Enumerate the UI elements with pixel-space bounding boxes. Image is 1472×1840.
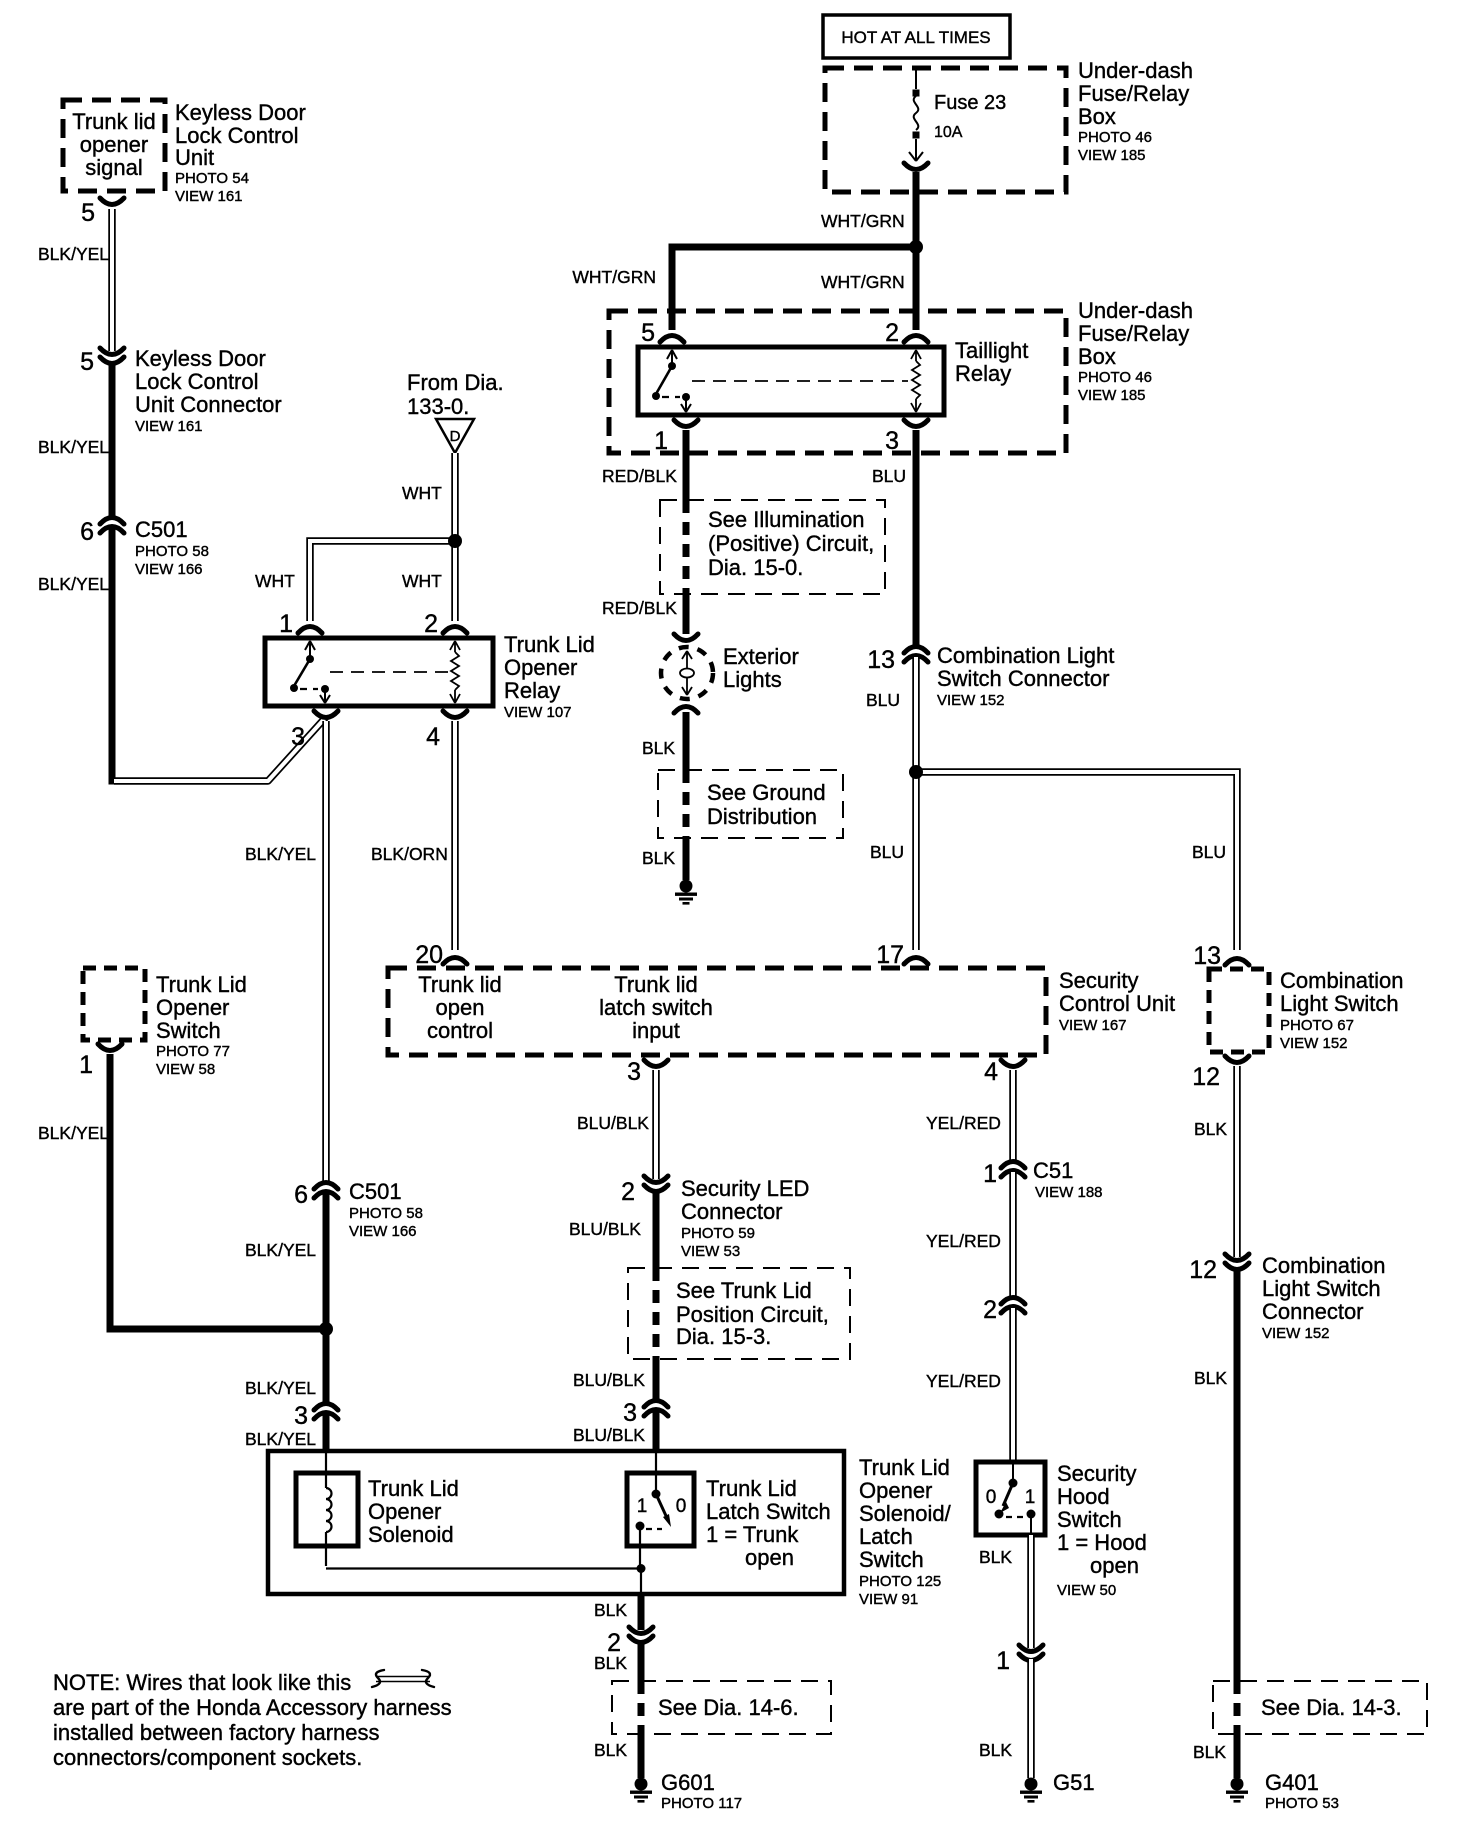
svg-text:WHT/GRN: WHT/GRN: [821, 211, 905, 231]
wire WHT thin double from triangle down to junction: [451, 453, 459, 541]
svg-text:BLU: BLU: [1192, 842, 1226, 862]
pin 3 (bottom-right) connector arch: [904, 420, 928, 427]
svg-text:4: 4: [426, 723, 440, 751]
wire BLK/YEL thick from connector 5 to C501: [109, 362, 116, 519]
svg-text:VIEW 53: VIEW 53: [681, 1243, 740, 1260]
wire YEL/RED thin double from C51 to connector 2: [1009, 1172, 1017, 1297]
connector 2 (BLK, below latch switch): [629, 1627, 653, 1643]
svg-text:VIEW 188: VIEW 188: [1035, 1184, 1103, 1201]
component: Under-dash Fuse/Relay Box (lower dashed box around taillight relay): [609, 311, 1066, 453]
pin 2 (top-right) connector arch: [443, 627, 467, 634]
svg-text:Connector: Connector: [1262, 1299, 1364, 1324]
wire BLK/YEL thin double from relay pin 3 down to C501 (lower): [322, 721, 330, 1181]
wire BLU thin double branch right to combination light switch pin 13: [916, 772, 1237, 950]
wire BLK to ground G401: [1234, 1734, 1241, 1778]
svg-text:Opener: Opener: [504, 655, 577, 680]
trunk lid opener switch pin 1 arch: [98, 1044, 122, 1051]
svg-text:Light Switch: Light Switch: [1280, 991, 1399, 1016]
svg-text:Control Unit: Control Unit: [1059, 991, 1175, 1016]
label: Under-dash Fuse/Relay Box PHOTO 46 VIEW 185 (upper): [1078, 58, 1193, 164]
svg-text:5: 5: [81, 199, 95, 227]
svg-text:Trunk Lid: Trunk Lid: [504, 632, 595, 657]
svg-text:Keyless Door: Keyless Door: [175, 100, 306, 125]
svg-text:VIEW 152: VIEW 152: [1262, 1325, 1330, 1342]
fuse F23: Fuse 23 10A: [909, 68, 1006, 161]
junction node BLU: [909, 765, 923, 779]
svg-text:See Dia. 14-6.: See Dia. 14-6.: [658, 1695, 799, 1720]
svg-text:See Dia. 14-3.: See Dia. 14-3.: [1261, 1695, 1402, 1720]
svg-text:Trunk Lid: Trunk Lid: [156, 972, 247, 997]
svg-text:Dia. 15-0.: Dia. 15-0.: [708, 555, 803, 580]
svg-text:See Trunk Lid: See Trunk Lid: [676, 1278, 812, 1303]
component: Trunk Lid Opener Solenoid / Latch Switch (outer solid box): [268, 1451, 844, 1594]
svg-text:3: 3: [294, 1402, 308, 1430]
switch: Trunk Lid Latch Switch (inner box): [627, 1452, 694, 1568]
svg-text:G401: G401: [1265, 1770, 1319, 1795]
svg-text:2: 2: [885, 319, 899, 347]
relay internal: thin dashed link line: [330, 671, 450, 673]
svg-text:Security: Security: [1057, 1461, 1136, 1486]
wire BLK dashed through See Dia. 14-3. box: [1234, 1681, 1241, 1734]
svg-text:VIEW 161: VIEW 161: [175, 188, 243, 205]
wire YEL/RED thin double from connector 2 to hood switch: [1009, 1308, 1017, 1462]
svg-text:D: D: [450, 428, 461, 445]
wire BLK/YEL thick from opener switch down and right to junction: [107, 1054, 328, 1329]
svg-text:BLK: BLK: [594, 1740, 627, 1760]
svg-text:Solenoid/: Solenoid/: [859, 1501, 952, 1526]
svg-text:Fuse/Relay: Fuse/Relay: [1078, 81, 1189, 106]
svg-text:Trunk Lid: Trunk Lid: [706, 1476, 797, 1501]
pin 2 (top-right) connector arch: [904, 336, 928, 343]
svg-text:Latch: Latch: [859, 1524, 913, 1549]
svg-text:Connector: Connector: [681, 1199, 783, 1224]
wire BLK thick below exterior lights: [683, 712, 690, 770]
svg-text:BLK/YEL: BLK/YEL: [245, 1240, 316, 1260]
svg-text:VIEW 161: VIEW 161: [135, 418, 203, 435]
svg-text:VIEW 185: VIEW 185: [1078, 387, 1146, 404]
label: Security Hood Switch 1 = Hood open VIEW 50: [1057, 1461, 1147, 1599]
ground G401 PHOTO 53: [1226, 1778, 1248, 1803]
label: Security Control Unit VIEW 167: [1059, 968, 1175, 1034]
svg-text:open: open: [1090, 1553, 1139, 1578]
wire: accessory harness double line, horizontal + diagonal up to relay pin 3: [114, 717, 326, 781]
svg-text:signal: signal: [85, 155, 142, 180]
svg-text:3: 3: [623, 1399, 637, 1427]
svg-text:BLK: BLK: [979, 1547, 1012, 1567]
wire BLK thin double from connector 1 to ground G51: [1027, 1659, 1035, 1778]
svg-text:(Positive) Circuit,: (Positive) Circuit,: [708, 531, 874, 556]
svg-text:BLU: BLU: [872, 466, 906, 486]
connector 13: Combination Light Switch Connector: [904, 647, 928, 663]
SCU pin 17 arch: [904, 958, 928, 965]
component: Combination Light Switch (dashed box): [1209, 969, 1269, 1052]
svg-text:Relay: Relay: [504, 678, 560, 703]
svg-text:Switch: Switch: [859, 1547, 924, 1572]
wire BLK/ORN thin double from relay pin 4 down to SCU pin 20: [451, 721, 459, 950]
svg-text:PHOTO 58: PHOTO 58: [135, 543, 209, 560]
svg-text:20: 20: [415, 941, 443, 969]
wire WHT branch: junction to relay pin 1: [310, 541, 455, 621]
svg-text:PHOTO 54: PHOTO 54: [175, 170, 249, 187]
svg-text:NOTE: Wires that look like thi: NOTE: Wires that look like this: [53, 1670, 351, 1695]
svg-text:BLK/YEL: BLK/YEL: [245, 844, 316, 864]
svg-text:Unit Connector: Unit Connector: [135, 392, 282, 417]
svg-text:1: 1: [983, 1160, 997, 1188]
svg-text:Latch Switch: Latch Switch: [706, 1499, 831, 1524]
component: Trunk Lid Opener Switch (dashed box): [83, 968, 145, 1040]
label: From Dia. 133-0.: [407, 370, 504, 419]
svg-text:C51: C51: [1033, 1158, 1073, 1183]
svg-text:Opener: Opener: [156, 995, 229, 1020]
svg-text:PHOTO 67: PHOTO 67: [1280, 1017, 1354, 1034]
svg-text:Switch: Switch: [156, 1018, 221, 1043]
ground (exterior lights): [675, 880, 697, 905]
svg-text:Relay: Relay: [955, 361, 1011, 386]
ground G51: [1020, 1778, 1042, 1803]
wire BLK thick below solenoid box: [638, 1594, 645, 1630]
junction node inside solenoid box: [637, 1564, 646, 1573]
svg-text:5: 5: [641, 319, 655, 347]
wire BLU/BLK dashed through reference box: [653, 1268, 660, 1359]
wire BLU/BLK thick to connector 3: [653, 1359, 660, 1400]
comb switch pin 13 arch: [1225, 959, 1249, 966]
svg-text:HOT AT ALL TIMES: HOT AT ALL TIMES: [841, 28, 990, 47]
svg-text:BLU: BLU: [870, 842, 904, 862]
wire YEL/RED thin double from SCU pin 4 to C51: [1009, 1070, 1017, 1161]
svg-text:control: control: [427, 1018, 493, 1043]
pin 4 (bottom-right) connector arch: [443, 711, 467, 718]
svg-text:Combination: Combination: [1280, 968, 1404, 993]
wire BLU thin double down to SCU pin 17: [912, 772, 920, 950]
svg-text:VIEW 152: VIEW 152: [1280, 1035, 1348, 1052]
svg-text:0: 0: [986, 1487, 997, 1508]
pin 3 (bottom-left) connector arch: [314, 711, 338, 718]
svg-text:PHOTO 77: PHOTO 77: [156, 1043, 230, 1060]
svg-text:Switch: Switch: [1057, 1507, 1122, 1532]
svg-text:12: 12: [1189, 1256, 1217, 1284]
relay: Trunk Lid Opener Relay (solid box): [265, 638, 493, 706]
pin 1 (bottom-left) connector arch: [674, 420, 698, 427]
svg-text:WHT: WHT: [255, 571, 295, 591]
wire RED/BLK dashed through reference box: [683, 500, 690, 594]
svg-text:RED/BLK: RED/BLK: [602, 598, 677, 618]
svg-text:BLK/YEL: BLK/YEL: [38, 574, 109, 594]
svg-text:Distribution: Distribution: [707, 804, 817, 829]
svg-text:Under-dash: Under-dash: [1078, 58, 1193, 83]
svg-text:WHT/GRN: WHT/GRN: [572, 267, 656, 287]
svg-text:Opener: Opener: [368, 1499, 441, 1524]
junction node WHT: [448, 534, 462, 548]
svg-text:BLK/YEL: BLK/YEL: [245, 1378, 316, 1398]
svg-text:BLU/BLK: BLU/BLK: [577, 1113, 649, 1133]
label: Keyless Door Lock Control Unit PHOTO 54 VIEW 161: [175, 100, 306, 205]
relay internal: coil: [450, 641, 460, 703]
svg-text:BLK: BLK: [594, 1653, 627, 1673]
svg-text:Trunk lid: Trunk lid: [72, 109, 156, 134]
relay internal: switch contact arm: [290, 641, 330, 703]
svg-text:RED/BLK: RED/BLK: [602, 466, 677, 486]
svg-text:BLU/BLK: BLU/BLK: [573, 1370, 645, 1390]
svg-text:open: open: [745, 1545, 794, 1570]
svg-text:Lock Control: Lock Control: [135, 369, 259, 394]
svg-text:YEL/RED: YEL/RED: [926, 1231, 1001, 1251]
reference box: See Illumination (Positive) Circuit, Dia. 15-0.: [660, 500, 885, 594]
pin 5 (top-left) connector arch: [660, 336, 684, 343]
svg-text:133-0.: 133-0.: [407, 394, 469, 419]
component: Under-dash Fuse/Relay Box (upper dashed box): [825, 68, 1066, 192]
svg-text:opener: opener: [80, 132, 149, 157]
svg-text:2: 2: [424, 610, 438, 638]
svg-text:6: 6: [80, 518, 94, 546]
svg-text:Light Switch: Light Switch: [1262, 1276, 1381, 1301]
svg-text:Trunk Lid: Trunk Lid: [859, 1455, 950, 1480]
svg-text:G51: G51: [1053, 1770, 1095, 1795]
svg-text:WHT: WHT: [402, 483, 442, 503]
svg-text:13: 13: [1193, 942, 1221, 970]
lamp: Exterior Lights: [661, 634, 713, 713]
wire BLK thin double from comb switch pin 12 to connector 12: [1233, 1066, 1241, 1257]
svg-text:Keyless Door: Keyless Door: [135, 346, 266, 371]
svg-text:VIEW 58: VIEW 58: [156, 1061, 215, 1078]
svg-text:Solenoid: Solenoid: [368, 1522, 454, 1547]
wire BLU/BLK thick below Security LED connector: [653, 1190, 660, 1268]
svg-text:Fuse/Relay: Fuse/Relay: [1078, 321, 1189, 346]
note text with accessory harness symbol: [53, 1670, 452, 1770]
comb switch pin 12 arch: [1225, 1056, 1249, 1063]
svg-text:17: 17: [876, 941, 904, 969]
svg-text:connectors/component sockets.: connectors/component sockets.: [53, 1745, 362, 1770]
svg-text:C501: C501: [349, 1179, 402, 1204]
svg-text:3: 3: [627, 1058, 641, 1086]
svg-text:12: 12: [1192, 1063, 1220, 1091]
svg-text:See Ground: See Ground: [707, 780, 826, 805]
SCU pin 20 arch: [443, 958, 467, 965]
connector C501 (pin 6, lower): [314, 1183, 338, 1199]
svg-text:WHT: WHT: [402, 571, 442, 591]
SCU pin 3 arch: [644, 1060, 668, 1067]
svg-text:1 = Hood: 1 = Hood: [1057, 1530, 1147, 1555]
box: HOT AT ALL TIMES: [823, 15, 1010, 58]
wire BLK to ground: [683, 838, 690, 880]
svg-text:3: 3: [291, 723, 305, 751]
svg-text:2: 2: [983, 1296, 997, 1324]
svg-text:PHOTO 46: PHOTO 46: [1078, 129, 1152, 146]
svg-text:BLK: BLK: [642, 738, 675, 758]
taillight relay internal: coil: [911, 350, 921, 412]
SCU pin 4 arch: [1001, 1060, 1025, 1067]
svg-text:VIEW 107: VIEW 107: [504, 704, 572, 721]
svg-text:installed between factory harn: installed between factory harness: [53, 1720, 380, 1745]
junction node BLK/YEL: [319, 1322, 333, 1336]
reference box: See Trunk Lid Position Circuit, Dia. 15-3.: [628, 1268, 850, 1359]
switch: Security Hood Switch (solid box): [976, 1462, 1045, 1535]
svg-text:Trunk lid: Trunk lid: [614, 972, 698, 997]
wire BLK/YEL thick from C501 through junction to connector 3: [323, 1193, 330, 1402]
label: Under-dash Fuse/Relay Box PHOTO 46 VIEW 185 (lower): [1078, 298, 1193, 404]
wire BLU/BLK thin double from SCU pin 3 to Security LED connector: [652, 1070, 660, 1179]
svg-text:BLK: BLK: [1194, 1368, 1227, 1388]
svg-text:VIEW 167: VIEW 167: [1059, 1017, 1127, 1034]
svg-text:BLK/YEL: BLK/YEL: [38, 244, 109, 264]
wire BLK thick from connector 12 down: [1234, 1268, 1241, 1681]
svg-text:VIEW 185: VIEW 185: [1078, 147, 1146, 164]
svg-text:VIEW 166: VIEW 166: [135, 561, 203, 578]
svg-text:VIEW 166: VIEW 166: [349, 1223, 417, 1240]
svg-text:YEL/RED: YEL/RED: [926, 1371, 1001, 1391]
reference box: See Ground Distribution: [658, 770, 843, 838]
ground G601 PHOTO 117: [630, 1778, 652, 1803]
svg-text:input: input: [632, 1018, 680, 1043]
svg-text:1: 1: [79, 1051, 93, 1079]
wire BLU/BLK thick into latch switch box: [653, 1411, 660, 1452]
svg-text:1: 1: [637, 1496, 648, 1517]
svg-text:PHOTO 58: PHOTO 58: [349, 1205, 423, 1222]
svg-text:BLK/YEL: BLK/YEL: [38, 1123, 109, 1143]
junction node WHT/GRN: [909, 240, 923, 254]
svg-text:VIEW 91: VIEW 91: [859, 1591, 918, 1608]
reference box: See Dia. 14-3.: [1213, 1681, 1427, 1734]
svg-text:BLK: BLK: [1194, 1119, 1227, 1139]
component: Security Control Unit (dashed box): [388, 968, 1046, 1055]
svg-text:VIEW 152: VIEW 152: [937, 692, 1005, 709]
svg-text:See Illumination: See Illumination: [708, 507, 865, 532]
pin 1 (top-left) connector arch: [298, 627, 322, 634]
reference box: See Dia. 14-6.: [612, 1681, 831, 1734]
taillight relay internal: thin dashed link line: [692, 380, 908, 382]
svg-text:2: 2: [621, 1178, 635, 1206]
svg-text:Taillight: Taillight: [955, 338, 1028, 363]
svg-text:From Dia.: From Dia.: [407, 370, 504, 395]
svg-text:4: 4: [984, 1058, 998, 1086]
svg-text:YEL/RED: YEL/RED: [926, 1113, 1001, 1133]
svg-text:BLK: BLK: [594, 1600, 627, 1620]
svg-text:BLU/BLK: BLU/BLK: [569, 1219, 641, 1239]
svg-text:Unit: Unit: [175, 145, 214, 170]
pin 5 of keyless unit: [100, 198, 124, 205]
label: Trunk Lid Latch Switch 1 = Trunk open: [706, 1476, 831, 1570]
svg-text:BLU: BLU: [866, 690, 900, 710]
wire WHT: junction down to relay pin 2: [451, 541, 459, 621]
svg-text:PHOTO 125: PHOTO 125: [859, 1573, 941, 1590]
wire BLU thick from taillight pin 3 to connector 13: [913, 430, 920, 645]
wire WHT/GRN branch to taillight relay pin 5: [672, 247, 916, 330]
wire WHT/GRN thick from fuse box down to junction and taillight relay pin 2: [913, 172, 920, 330]
solenoid: Trunk Lid Opener Solenoid (inner box with coil): [296, 1451, 641, 1569]
svg-text:Trunk Lid: Trunk Lid: [368, 1476, 459, 1501]
svg-text:BLK/YEL: BLK/YEL: [245, 1429, 316, 1449]
svg-text:C501: C501: [135, 517, 188, 542]
svg-text:PHOTO 117: PHOTO 117: [661, 1795, 742, 1812]
svg-text:Switch Connector: Switch Connector: [937, 666, 1109, 691]
wire BLK dashed through reference box: [683, 770, 690, 838]
svg-text:Opener: Opener: [859, 1478, 932, 1503]
wire BLK thin double from hood switch to connector 1: [1027, 1535, 1035, 1648]
svg-text:Security: Security: [1059, 968, 1138, 993]
connector 2 (YEL/RED): [1001, 1298, 1025, 1314]
svg-text:Box: Box: [1078, 104, 1116, 129]
svg-text:Exterior: Exterior: [723, 644, 799, 669]
svg-text:PHOTO 59: PHOTO 59: [681, 1225, 755, 1242]
svg-text:BLK: BLK: [1193, 1742, 1226, 1762]
connector 1 (BLK, below hood switch): [1019, 1645, 1043, 1661]
svg-text:Dia. 15-3.: Dia. 15-3.: [676, 1324, 771, 1349]
svg-text:1: 1: [996, 1647, 1010, 1675]
wire from junction out bottom of box: [640, 1568, 642, 1594]
svg-text:WHT/GRN: WHT/GRN: [821, 272, 905, 292]
svg-text:13: 13: [867, 646, 895, 674]
svg-text:6: 6: [294, 1181, 308, 1209]
svg-text:Combination Light: Combination Light: [937, 643, 1114, 668]
svg-text:1: 1: [654, 427, 668, 455]
svg-text:1: 1: [279, 610, 293, 638]
svg-text:VIEW 50: VIEW 50: [1057, 1582, 1116, 1599]
svg-text:are part of the Honda Accessor: are part of the Honda Accessory harness: [53, 1695, 452, 1720]
svg-text:BLK/ORN: BLK/ORN: [371, 844, 448, 864]
svg-text:PHOTO 53: PHOTO 53: [1265, 1795, 1339, 1812]
label: Trunk Lid Opener Solenoid/Latch Switch PHOTO 125 VIEW 91: [859, 1455, 952, 1608]
relay: Taillight Relay (solid box): [638, 347, 944, 415]
wire BLU thin double from connector 13 down to junction: [912, 657, 920, 772]
component: Keyless Door Lock Control Unit (dashed box, trunk lid opener signal): [63, 100, 165, 191]
svg-text:1: 1: [1025, 1487, 1036, 1508]
svg-text:latch switch: latch switch: [599, 995, 713, 1020]
svg-text:5: 5: [80, 348, 94, 376]
svg-text:3: 3: [885, 427, 899, 455]
label: Trunk Lid Opener Relay VIEW 107: [504, 632, 595, 721]
svg-text:Combination: Combination: [1262, 1253, 1386, 1278]
connector C501 (pin 6, upper): [100, 518, 124, 534]
taillight relay internal: switch contact arm: [652, 350, 691, 412]
connector 5: Keyless Door Lock Control Unit Connector: [100, 348, 124, 364]
wire BLK dashed through See Dia. 14-6. box: [638, 1681, 645, 1734]
svg-text:PHOTO 46: PHOTO 46: [1078, 369, 1152, 386]
connector 12: Combination Light Switch Connector: [1225, 1254, 1249, 1270]
connector arch at fuse box exit: [904, 163, 928, 170]
svg-text:0: 0: [676, 1496, 687, 1517]
svg-text:Trunk lid: Trunk lid: [418, 972, 502, 997]
svg-text:BLK/YEL: BLK/YEL: [38, 437, 109, 457]
wire BLK/YEL (accessory harness, thin double) from keyless unit to connector 5: [108, 209, 116, 351]
wire BLK/YEL thick from C501 down then right toward relay pin 3: [109, 528, 116, 785]
svg-text:BLK: BLK: [642, 848, 675, 868]
wire RED/BLK thick to exterior lights: [683, 594, 690, 634]
connector C51 (pin 1): [1001, 1162, 1025, 1178]
symbol: accessory harness wire sample: [372, 1670, 434, 1687]
svg-text:Lights: Lights: [723, 667, 782, 692]
connector 3 (BLK/YEL): [314, 1404, 338, 1420]
svg-text:Security LED: Security LED: [681, 1176, 809, 1201]
svg-text:Hood: Hood: [1057, 1484, 1110, 1509]
svg-text:BLU/BLK: BLU/BLK: [573, 1425, 645, 1445]
symbol: triangle D (from diagram 133-0): [436, 419, 474, 453]
svg-text:10A: 10A: [934, 124, 963, 141]
connector 3 (BLU/BLK): [644, 1401, 668, 1417]
wire BLK to ground G601: [638, 1734, 645, 1778]
svg-text:Box: Box: [1078, 344, 1116, 369]
svg-text:BLK: BLK: [979, 1740, 1012, 1760]
svg-text:Fuse 23: Fuse 23: [934, 92, 1006, 114]
svg-text:G601: G601: [661, 1770, 715, 1795]
wire RED/BLK thick from taillight pin 1 down: [683, 430, 690, 500]
svg-text:1 = Trunk: 1 = Trunk: [706, 1522, 799, 1547]
wire BLK thick to See Dia. 14-6.: [638, 1641, 645, 1681]
wire BLK/YEL thick into solenoid box: [323, 1414, 330, 1452]
connector 2: Security LED Connector: [644, 1176, 668, 1192]
svg-text:open: open: [436, 995, 485, 1020]
svg-text:Under-dash: Under-dash: [1078, 298, 1193, 323]
